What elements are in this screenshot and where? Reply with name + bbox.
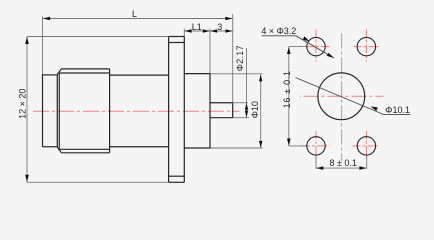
svg-text:8 ± 0.1: 8 ± 0.1: [329, 158, 356, 168]
svg-text:Φ10: Φ10: [250, 101, 260, 118]
svg-text:Φ2.17: Φ2.17: [235, 45, 245, 71]
svg-text:L1: L1: [192, 22, 202, 32]
svg-text:16 ± 0.1: 16 ± 0.1: [282, 70, 292, 108]
svg-text:3: 3: [217, 22, 222, 32]
svg-text:4 × Φ3.2: 4 × Φ3.2: [261, 26, 296, 36]
svg-text:L: L: [132, 9, 137, 19]
svg-text:12 × 20: 12 × 20: [18, 89, 28, 119]
svg-text:Φ10.1: Φ10.1: [385, 105, 410, 115]
